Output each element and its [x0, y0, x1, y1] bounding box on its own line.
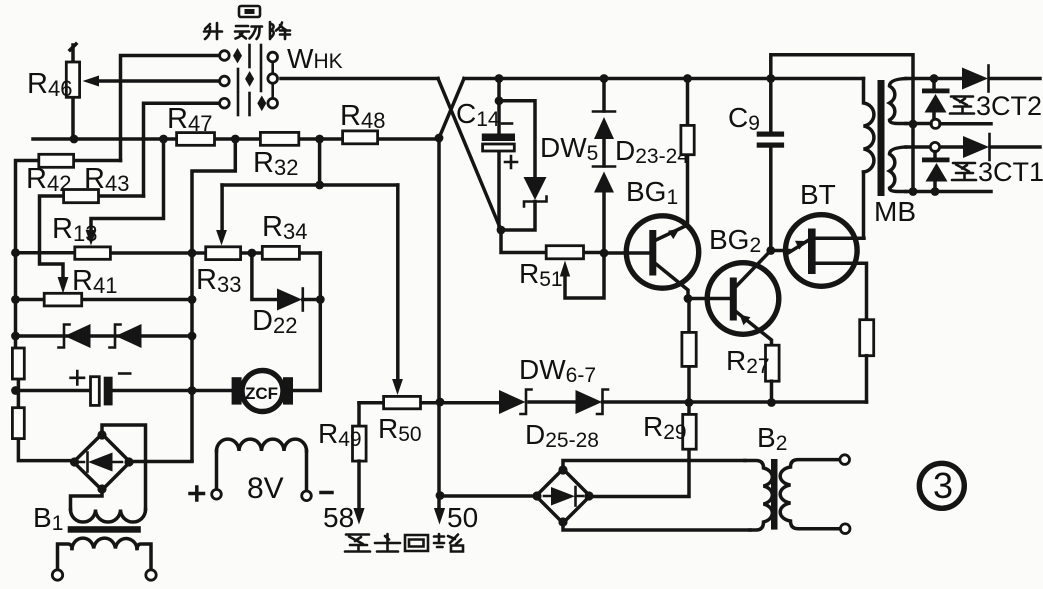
wire zener pair line y336 [16, 334, 193, 338]
diode zener DW6 pointing right [499, 390, 526, 414]
diode pair D23-24 branch [602, 79, 606, 254]
svg-text:3: 3 [933, 465, 953, 506]
wire B1 bridge bottom to winding left lead [71, 490, 103, 510]
node C14 minus sign [502, 122, 512, 125]
wire output row2 bottom line [906, 190, 991, 194]
wire MB secondary common vertical [911, 124, 915, 192]
resistor R46 [70, 44, 76, 139]
resistor unlabeled left column lower [12, 408, 24, 439]
text 动 [235, 26, 262, 39]
wire bridge bottom to B2 primary [563, 523, 750, 530]
wire y185 rail [222, 183, 398, 187]
capacitor electrolytic minus plate [104, 377, 113, 406]
node junction x192 cap line [188, 386, 197, 395]
node 8V right terminal [302, 491, 312, 501]
node junction row2 bottom [931, 187, 940, 196]
node junction rail R27 column [767, 398, 776, 407]
text 至3CT2 [950, 97, 974, 114]
resistor unlabeled BT emitter [860, 320, 874, 356]
node junction left column cap line [11, 386, 20, 395]
wire R50 left to R49 [357, 403, 361, 426]
wire D22 branch from R33-R34 junction [252, 253, 320, 300]
wire from bus junction down-left to R13 wiper [91, 139, 164, 232]
switch WHK row1 right contact [268, 52, 278, 62]
label circled 3 [919, 463, 964, 508]
node B1 bridge left vertex [70, 457, 79, 466]
resistor R51 with wiper [501, 230, 605, 253]
node junction x192 R13 line [188, 249, 197, 258]
node junction C9 top on bus [766, 74, 775, 83]
node junction BG1 collector on bus [683, 74, 692, 83]
wire BG1 base lead [604, 251, 650, 255]
node junction R33-R34 [248, 249, 257, 258]
wire X diagonal short from R48 bus end up to top bus [439, 79, 464, 139]
node BG1 emitter arrowhead pointing out NE [668, 229, 680, 239]
wire R49 down to 58 arrow [357, 461, 361, 510]
node bridge left vertex [532, 491, 541, 500]
diode D24 pointing up [602, 139, 606, 166]
resistor R13 [75, 247, 111, 259]
wire R13 line y253 [16, 251, 321, 255]
node B1 bridge top vertex [97, 430, 106, 439]
wire MB primary bottom lead to BT [862, 172, 866, 238]
wire drop to R50 wiper arrow [396, 185, 400, 380]
capacitor C14 minus plate [482, 134, 515, 142]
node arrowhead down onto R33 [216, 230, 227, 246]
diode shunt row2 pointing up with wide bar [933, 152, 937, 192]
node junction rail BG1 column [685, 398, 694, 407]
switch WHK row3 left contact [220, 98, 230, 108]
resistor R49 [353, 426, 367, 461]
node junction R32-R48 [315, 135, 324, 144]
wire 8V right lead [305, 451, 309, 491]
capacitor C9 plates [757, 132, 784, 137]
node B1 primary right terminal [146, 570, 156, 580]
text 升 [204, 23, 222, 39]
wire top bus right segment [464, 77, 864, 81]
switch wiper diamond row1 [233, 48, 242, 63]
transformer B1 core [68, 526, 141, 533]
node 8V plus sign [190, 487, 204, 500]
switch finger bars column1 row2 [237, 69, 240, 91]
resistor R47 [177, 133, 215, 146]
switch icon box above [239, 6, 260, 17]
wire switch row3 left lead and drop to R43 [144, 103, 221, 196]
node junction x440 bridge line [436, 491, 445, 500]
capacitor C9 branch [769, 79, 773, 251]
wire linking right contacts [271, 62, 274, 99]
wire B1 primary right lead [137, 544, 151, 570]
transformer B2 primary winding [745, 461, 772, 531]
diode zener left-pointing 2 [116, 324, 142, 348]
node arrowhead down 58 [353, 508, 364, 525]
node junction C9-BT-BG2 [766, 246, 775, 255]
svg-text:BT: BT [800, 179, 836, 210]
node arrowhead up into R51 [560, 261, 570, 277]
node junction R51 left top [497, 226, 506, 235]
node arrowhead down 50 [434, 508, 445, 525]
node B1 primary left terminal [52, 570, 62, 580]
wire X diagonal long from top bus to R51 left node [438, 79, 501, 231]
bridge rectifier D25-28 [536, 469, 590, 523]
diode series output row1 pointing right [962, 68, 988, 90]
wire BG1 collector up through resistor to bus [686, 79, 690, 226]
wire main vertical x440 from X node to 50 arrow [437, 138, 441, 510]
node junction secondary common upper [909, 120, 918, 129]
diode zener left-pointing 1 [65, 324, 91, 348]
node junction output row1 diode tap [930, 74, 939, 83]
wire output row2 top line [906, 145, 1040, 149]
resistor R50 [384, 396, 421, 408]
node junction DW5 tap [495, 96, 504, 105]
wire B1 primary left lead [58, 544, 73, 570]
resistor R27 [766, 345, 780, 381]
resistor R42 [16, 161, 121, 253]
node junction R47-R32 [231, 135, 240, 144]
bridge rectifier B1 input [74, 434, 131, 490]
wire 8V left lead [215, 451, 219, 490]
node junction bus left of R47 [159, 135, 168, 144]
text 至3CT1 [952, 163, 976, 180]
winding 8V [217, 439, 307, 451]
node junction D23-24 top on bus [600, 74, 609, 83]
node 8V left terminal [212, 490, 222, 500]
transformer B1 primary winding lower [72, 538, 137, 548]
node C14 plus sign [505, 156, 517, 168]
resistor R34 [262, 246, 299, 259]
wire top bus left segment from switch WHK row2 to X crossing [281, 77, 438, 81]
wire bridge left vertex to x440 [440, 494, 537, 498]
wire left column lower with two resistors [16, 253, 74, 461]
node arrowhead down onto R13 [86, 230, 97, 246]
transistor BT [786, 215, 858, 287]
switch finger bars column2 row1 [248, 45, 251, 67]
diode D22 [277, 289, 302, 311]
node junction x192 zener line [188, 332, 197, 341]
transformer MB core [878, 80, 885, 196]
diode series output row2 pointing right [963, 136, 989, 158]
switch finger bars column3 row1 [260, 45, 263, 67]
node BG2 emitter arrowhead pointing at bar [740, 315, 751, 326]
wire output row1 top line [906, 77, 1040, 81]
svg-text:3CT2: 3CT2 [976, 91, 1042, 121]
wire from R47-R32 junction down and left to x192 column [192, 139, 235, 460]
wire B1 bridge top to winding right lead [102, 425, 146, 510]
svg-text:MB: MB [874, 196, 916, 227]
transformer MB secondary upper winding [890, 79, 907, 124]
node junction BG1 emitter node [684, 294, 693, 303]
capacitor C14 plus plate [483, 144, 515, 151]
wire arrow line into R46 from switch row2 left [96, 79, 220, 83]
switch finger bars column3 row2 [260, 69, 263, 91]
node open terminal row1 [931, 119, 940, 128]
diode zener DW5 branch [499, 101, 535, 230]
svg-text:8V: 8V [247, 472, 284, 505]
transformer B1 secondary winding upper [71, 510, 146, 523]
node junction bus below R46 [70, 135, 79, 144]
node plus sign [71, 371, 84, 384]
switch wiper diamond row3 [257, 96, 266, 112]
diode zener DW7 pointing right [576, 390, 603, 414]
node junction x192 R41 line [188, 295, 197, 304]
transistor BG1 [626, 216, 698, 288]
wire BG1 emitter node down through resistor to bottom rail [687, 299, 691, 403]
wire second bus y139 left part [33, 137, 439, 141]
node B2 secondary top terminal [840, 455, 850, 465]
wire output row1 bottom line [906, 122, 991, 126]
text 至主回路 [345, 535, 370, 552]
node 8V minus sign [321, 491, 332, 495]
node B1 bridge bottom vertex [97, 484, 106, 493]
transistor BG2 [707, 263, 779, 335]
node junction secondary common lower [909, 187, 918, 196]
svg-text:50: 50 [447, 502, 478, 533]
node arrowhead down onto R50 [392, 379, 403, 395]
node junction bus right end at X [435, 134, 444, 143]
wire B1 bridge right vertex to x192 column [129, 460, 192, 464]
wire bridge top to B2 primary [563, 461, 745, 470]
switch WHK row1 left contact [220, 51, 230, 61]
svg-text:ZCF: ZCF [245, 384, 278, 403]
switch wiper diamond row2 [245, 71, 254, 87]
svg-text:3CT1: 3CT1 [978, 157, 1043, 187]
switch finger bars column1 row3 [237, 93, 240, 115]
node junction R51 right base node [600, 249, 609, 258]
wire from R32-R48 junction down to y185 rail [318, 139, 322, 185]
capacitor C14 branch [497, 79, 501, 231]
node C14 top junction on bus [495, 74, 504, 83]
node junction D22 right [316, 295, 325, 304]
resistor R43 [40, 196, 144, 276]
resistor unlabeled BG1 collector [681, 125, 694, 154]
resistor unlabeled BG1 lower [682, 332, 696, 366]
wire bottom rail y402.5 [359, 400, 867, 404]
wire drop to R33 wiper arrow [220, 185, 224, 232]
node B1 bridge right vertex [124, 457, 133, 466]
switch WHK row2 left contact [220, 76, 230, 86]
resistor R33 [206, 247, 241, 260]
transformer MB primary winding [864, 79, 874, 173]
switch WHK row2 right contact [268, 74, 278, 84]
wire y54 jog from bus to MB secondary common [771, 55, 913, 124]
node open terminal row2 [930, 142, 939, 151]
node junction left column zener line [11, 332, 20, 341]
switch WHK row3 right contact [268, 98, 278, 108]
capacitor electrolytic plus plate [91, 377, 100, 406]
node B2 secondary bottom terminal [840, 524, 850, 534]
resistor R29 [590, 403, 689, 497]
transformer MB secondary lower winding [890, 147, 907, 192]
diode shunt row1 pointing up with wide bar [932, 79, 936, 120]
node bridge right vertex [584, 491, 593, 500]
resistor R32 [260, 132, 298, 145]
transformer B2 core [771, 459, 778, 530]
wire switch row1 left lead and drop to R42 [121, 56, 221, 161]
node bridge top vertex [558, 465, 567, 474]
node junction rail x440 [436, 398, 445, 407]
resistor unlabeled left column upper [12, 348, 24, 379]
node junction left column R13 line [11, 248, 20, 257]
node arrowhead down onto R41 [58, 277, 69, 294]
diode D23 pointing up [593, 110, 615, 113]
node junction y185 rail [315, 181, 324, 190]
node junction left column R41 line [11, 295, 20, 304]
node BT left arrowhead pointing NE at bar [795, 241, 807, 250]
meter ZCF [242, 371, 283, 412]
node minus sign [119, 372, 130, 375]
switch finger bars column2 row3 [248, 93, 251, 115]
wire BG1 emitter node to BG2 base [688, 297, 730, 301]
text 降 [270, 22, 290, 39]
node arrowhead pointing left at R46 [83, 76, 100, 87]
resistor R41 [44, 293, 81, 306]
wire capacitor line y390.5 [16, 389, 232, 393]
node bridge bottom vertex [558, 517, 567, 526]
wire R34 right end down through D22 node to ZCF right terminal [293, 253, 320, 391]
transformer B2 secondary winding [780, 460, 840, 529]
resistor R48 [343, 131, 378, 144]
diode zener DW5 pointing down [524, 177, 547, 200]
wire R41 line y299.5 [16, 298, 193, 302]
svg-text:58: 58 [323, 502, 354, 533]
